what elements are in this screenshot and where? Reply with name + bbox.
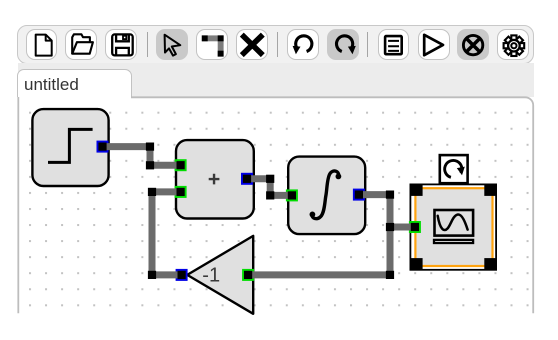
block: gain -1 triangle xyxy=(187,236,253,314)
wire branch to scope input xyxy=(390,224,412,231)
toolbar button: stop (active) xyxy=(457,29,489,60)
selection handle BR xyxy=(484,258,496,270)
separator xyxy=(277,32,278,57)
canvas panel borders xyxy=(17,97,19,313)
wire corner xyxy=(386,271,394,279)
toolbar button: save xyxy=(105,29,137,60)
port core: scope input (green) xyxy=(411,223,419,231)
toolbar button: delete X xyxy=(236,29,268,60)
wire junction xyxy=(386,223,394,231)
port frame: sum output (blue) xyxy=(241,173,253,185)
selection handle BL xyxy=(410,258,422,270)
block: step source xyxy=(32,109,108,186)
selection handle TL xyxy=(410,184,422,196)
scope screen icon xyxy=(435,210,474,236)
svg-text:-1: -1 xyxy=(202,264,220,286)
port core: gain output (blue) xyxy=(178,271,186,279)
toolbar button: redo (active) xyxy=(327,29,359,60)
toolbar button: open folder xyxy=(65,29,97,60)
port core: integrator output (blue) xyxy=(355,191,363,199)
port frame: step output (blue) xyxy=(97,141,109,153)
wire: step output to sum input 1 xyxy=(106,147,177,166)
wire corner xyxy=(146,143,154,151)
port core: step output (blue) xyxy=(98,143,106,151)
port core: sum input 2 (green) xyxy=(177,188,185,196)
block: sum xyxy=(176,140,254,218)
wire corner xyxy=(148,188,156,196)
wire corner xyxy=(148,271,156,279)
scope rotate badge xyxy=(440,155,468,183)
wire corner xyxy=(146,161,154,169)
toolbar button: new file xyxy=(26,29,58,60)
toolbar xyxy=(17,25,534,64)
block: scope (selected) xyxy=(410,184,496,271)
wire corner xyxy=(266,175,274,183)
selection handle TR xyxy=(484,184,496,196)
wire: sum output to integrator input xyxy=(249,179,289,196)
port core: gain input (green) xyxy=(244,271,252,279)
wire corner xyxy=(386,191,394,199)
toolbar button: settings gear xyxy=(497,29,529,60)
toolbar button: diagram list xyxy=(378,29,410,60)
tab row background xyxy=(18,63,534,97)
port frame: integrator output (blue) xyxy=(353,189,365,201)
port core: sum output (blue) xyxy=(243,175,251,183)
port frame: integrator input (green) xyxy=(286,189,298,201)
toolbar button: link/wire corner xyxy=(196,29,228,60)
port frame: scope input (green) xyxy=(409,221,421,233)
separator xyxy=(367,32,368,57)
port core: sum input 1 (green) xyxy=(177,161,185,169)
toolbar button: play / run xyxy=(418,29,450,60)
block: integrator xyxy=(288,157,365,235)
toolbar button: select cursor (active) xyxy=(156,29,188,60)
tab: untitled xyxy=(17,69,131,98)
toolbar button: undo xyxy=(287,29,319,60)
wire: gain output to sum input 2 xyxy=(152,192,184,275)
wire: integrator output down to scope junction and feedback xyxy=(251,195,391,275)
separator xyxy=(147,32,148,57)
port frame: gain output (blue) xyxy=(176,269,188,281)
grid dots xyxy=(21,104,532,312)
port core: integrator input (green) xyxy=(288,191,296,199)
port frame: sum input 2 (green) xyxy=(175,186,187,198)
port frame: sum input 1 (green) xyxy=(175,159,187,171)
wire corner xyxy=(266,191,274,199)
port frame: gain input (green) xyxy=(242,269,254,281)
